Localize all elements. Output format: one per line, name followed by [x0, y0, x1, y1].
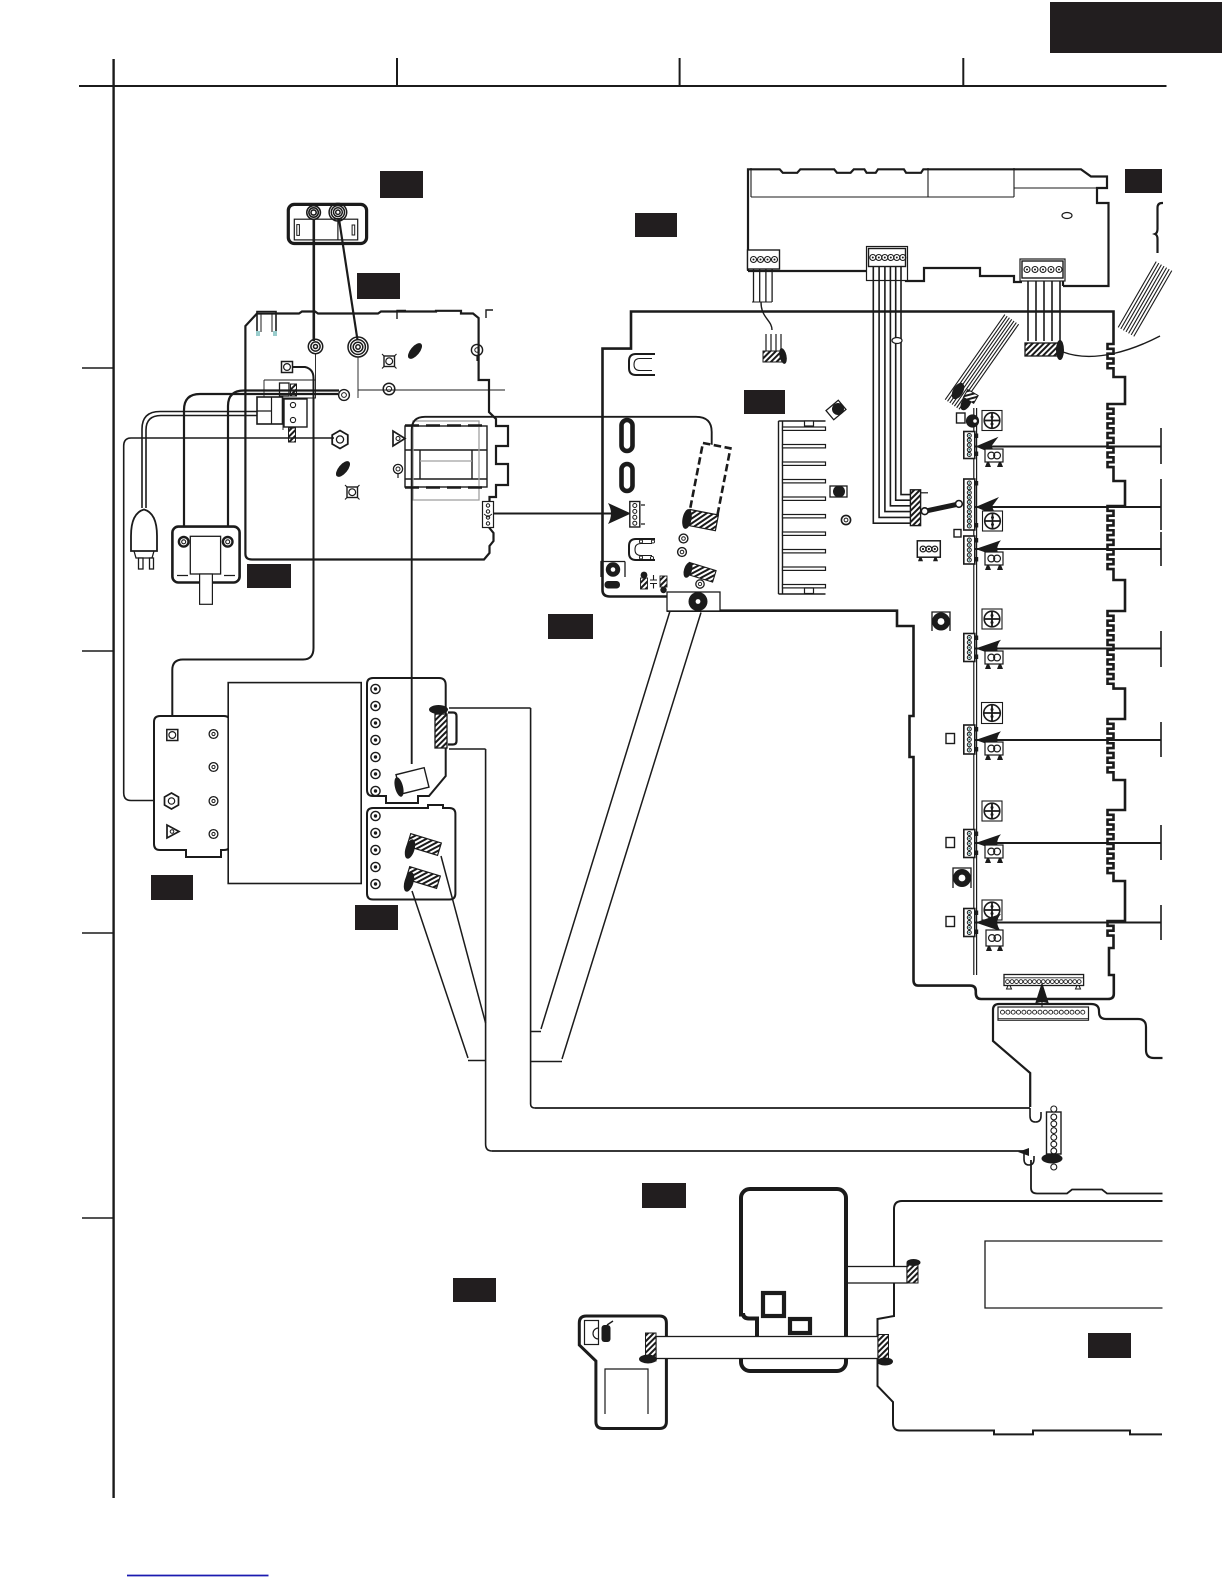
output line 4 [976, 648, 1162, 650]
socket bracket top-left [257, 312, 276, 337]
mount square J [167, 730, 178, 741]
trimmer VR4 [982, 609, 1002, 629]
switch knob right [329, 203, 347, 221]
connector CN G6 [964, 830, 975, 858]
connector quad at cable end [396, 768, 429, 794]
display window rect [985, 1241, 1163, 1308]
terminal screw R [223, 537, 233, 547]
board: main amplifier board outline [603, 312, 1126, 1000]
wire hex loop [124, 438, 334, 801]
flat cable band horizontal [449, 708, 531, 749]
motor pot G6 [985, 845, 1003, 858]
board: lower jack board [367, 805, 455, 900]
arrow up [1035, 982, 1049, 1004]
wire bundle from center connector [873, 267, 910, 523]
bracket screw holes [209, 730, 218, 739]
clip C lower [629, 539, 655, 560]
flat cable band vertical [486, 708, 535, 1151]
output line 7 [976, 922, 1162, 924]
wire from right knob [339, 219, 358, 340]
arrow G1 [976, 437, 999, 455]
output line 5 [976, 739, 1162, 741]
arrow G6 [976, 834, 1002, 851]
terminal tick 6 [1160, 825, 1162, 860]
connector CN power low [483, 502, 494, 528]
top tick 2 [679, 58, 681, 86]
cable lines from connectors [412, 891, 486, 1061]
connector CN G4 [964, 634, 975, 662]
label block 2 [380, 171, 423, 198]
cable outline long [412, 417, 712, 764]
FFC connector [687, 509, 719, 530]
connector 4pin main [630, 502, 640, 528]
connector CN G2 tall [964, 479, 975, 530]
connector flat cable end [1047, 1112, 1062, 1154]
label block 10 [355, 905, 398, 930]
label block 8 [548, 614, 593, 639]
arrow into connector [608, 503, 631, 524]
terminal tick 1 [1160, 428, 1162, 464]
bracket panel left [154, 716, 230, 857]
switch: power switch body [288, 204, 366, 243]
board Y neck [1031, 1160, 1163, 1194]
ribbon screws [949, 381, 967, 402]
screw blob G [333, 459, 352, 479]
card edge connector lower [998, 1007, 1089, 1020]
screw hole A [308, 339, 322, 353]
left tick 2 [82, 650, 114, 652]
connector FFC out (hatched) [435, 714, 447, 748]
3pin component [917, 541, 940, 557]
label block 1 [1050, 2, 1222, 53]
square marker G5 [946, 734, 955, 744]
board: upper jack board [367, 678, 446, 803]
lever link [925, 504, 959, 511]
transistor T1 [826, 400, 846, 419]
connector hatched small low [686, 562, 716, 582]
bracket mark B [486, 310, 493, 318]
terminal tick 3 [1160, 532, 1162, 566]
screw circle I [339, 390, 350, 401]
wire stubs from CN left [753, 269, 755, 302]
label block 9 [151, 875, 193, 900]
ribbon cable diagonal right edge [1117, 261, 1173, 337]
left tick 1 [82, 367, 114, 369]
arrow G2 [976, 497, 1000, 516]
square marker G6 [946, 838, 955, 848]
mount square C [282, 362, 293, 373]
connector hatched lower [406, 867, 440, 889]
ribbon cable diagonal center [944, 314, 1020, 411]
board: power supply board outline [245, 311, 508, 560]
donut bracket G6 [953, 868, 971, 888]
connector CN right on front bracket [1020, 259, 1065, 281]
motor pot G1 [985, 449, 1003, 462]
arrow G7 [976, 914, 1002, 931]
board: front bracket outline [748, 169, 1109, 286]
trimmer VR7 [982, 900, 1002, 920]
label block 11 [642, 1183, 686, 1208]
top tick 3 [962, 58, 964, 86]
capacitor pair [641, 572, 648, 579]
connector CN G5 [964, 725, 975, 754]
wire terminal B [228, 391, 339, 539]
label block 13 [1088, 1333, 1131, 1358]
FFC cable rect [689, 443, 730, 518]
slot black lower [622, 464, 633, 491]
connector CN G1 [964, 432, 975, 459]
output line 1 [976, 446, 1162, 448]
motor pot G7 [986, 930, 1003, 946]
label block 4 [1125, 169, 1162, 193]
long loop wire to bracket [172, 367, 313, 728]
page frame top rule [79, 85, 1167, 87]
output line 6 [976, 842, 1162, 844]
screw blob E [405, 341, 424, 361]
AC terminal block [172, 527, 239, 583]
harness bar upper [835, 1267, 907, 1284]
triangle marker [393, 431, 405, 446]
hex nut A [332, 431, 348, 449]
label block 6 [744, 390, 785, 414]
connector CN left on front bracket [748, 250, 780, 269]
flat cable band bottom horizontals [492, 1108, 1030, 1151]
terminal tick 5 [1160, 722, 1162, 757]
trimmer VR1 [982, 411, 1002, 431]
cable diagonal right pair [531, 611, 670, 1032]
trimmer VR6 [982, 801, 1002, 821]
connector CN center on front bracket [867, 247, 908, 281]
label block 3 [357, 273, 400, 299]
wire from left knob [312, 219, 315, 341]
arrow G3 [976, 540, 1002, 557]
board: front bracket bottom edge [748, 268, 1063, 286]
chassis plate rectangle [228, 683, 361, 884]
clip C upper [629, 354, 655, 375]
label block 5 [635, 213, 677, 237]
card edge connector upper [1004, 975, 1084, 986]
wire to small connector [761, 302, 772, 330]
top tick 1 [396, 58, 398, 86]
terminal screw L [179, 537, 189, 547]
output line 3 [976, 548, 1162, 550]
inner square A [763, 1293, 784, 1316]
small wedge marker [1018, 1148, 1029, 1156]
target circle marker [393, 464, 402, 473]
square marker G7 [946, 917, 955, 927]
harness bar long [656, 1337, 878, 1359]
tie wrap on bundle [892, 338, 902, 344]
board: cord reel outline [579, 1316, 666, 1429]
screw circle F [471, 344, 482, 355]
relay block [257, 397, 283, 424]
motor pot G5 [985, 742, 1003, 755]
connector hatched upper [407, 834, 441, 856]
bus vertical double line [974, 408, 977, 975]
left tick 4 [82, 1217, 114, 1219]
terminal tick 4 [1160, 631, 1162, 667]
front bracket inner line [751, 168, 1107, 197]
page frame left rule [112, 59, 114, 1498]
square marker G1 [957, 413, 966, 423]
connector small 4pin [765, 334, 767, 353]
hex nut B [165, 793, 179, 809]
trace wires around holes [264, 353, 505, 430]
tie wrap marker [1062, 213, 1072, 219]
screw ring [841, 515, 850, 524]
left tick 3 [82, 932, 114, 934]
footer link line [127, 1575, 269, 1577]
triangle marker B [167, 825, 179, 838]
label block 7 [247, 564, 291, 588]
fuse small [280, 383, 290, 396]
motor pot G4 [985, 651, 1003, 664]
screw hole B [348, 337, 368, 357]
AC cord double line [142, 412, 257, 509]
connector CN G7 [964, 909, 975, 937]
transformer [405, 426, 487, 487]
trimmer VR5 [982, 703, 1003, 724]
donut bracket G4 [932, 612, 950, 631]
connector hatched right bundle [1025, 343, 1062, 356]
motor encoder block [667, 592, 720, 611]
bracket mark A [397, 311, 406, 320]
board: bottom right board outline [878, 1201, 1163, 1434]
mount square D [384, 356, 395, 367]
mount square H [347, 487, 358, 498]
black cap [966, 414, 979, 427]
clip detail [585, 1321, 599, 1345]
AC plug [131, 510, 157, 552]
donut black left [601, 562, 625, 578]
arrow G5 [976, 731, 1002, 748]
output line 2 [976, 506, 1162, 508]
slot black upper [622, 420, 633, 451]
arrow G4 [976, 640, 1002, 657]
square marker G2 [954, 530, 961, 538]
connector into main board (hatched) [910, 490, 920, 526]
motor pot G3 [985, 552, 1003, 565]
inner window [605, 1369, 648, 1414]
heatsink [779, 421, 783, 594]
right edge outline piece top [1155, 203, 1163, 253]
board X outline [993, 1004, 1163, 1058]
terminal tick 2 [1160, 479, 1162, 530]
label block 12 [453, 1278, 496, 1302]
wire terminal A [184, 394, 338, 538]
wire bundle right [1027, 281, 1029, 341]
switch knob left [307, 206, 321, 220]
band clip bracket [448, 713, 457, 745]
inner square B [790, 1319, 810, 1333]
wire power to arrow [494, 513, 613, 515]
screw ring E2 [383, 383, 395, 395]
terminal tick 7 [1160, 905, 1162, 940]
wire from connector to right edge [1063, 336, 1160, 356]
trimmer VR2 [983, 511, 1003, 531]
board: sub panel tall rounded [741, 1189, 846, 1371]
screw circles near FFC [679, 534, 688, 543]
transistor T2 [830, 486, 847, 497]
connector CN G3 [964, 536, 975, 564]
cable end hooks [1030, 1108, 1041, 1122]
